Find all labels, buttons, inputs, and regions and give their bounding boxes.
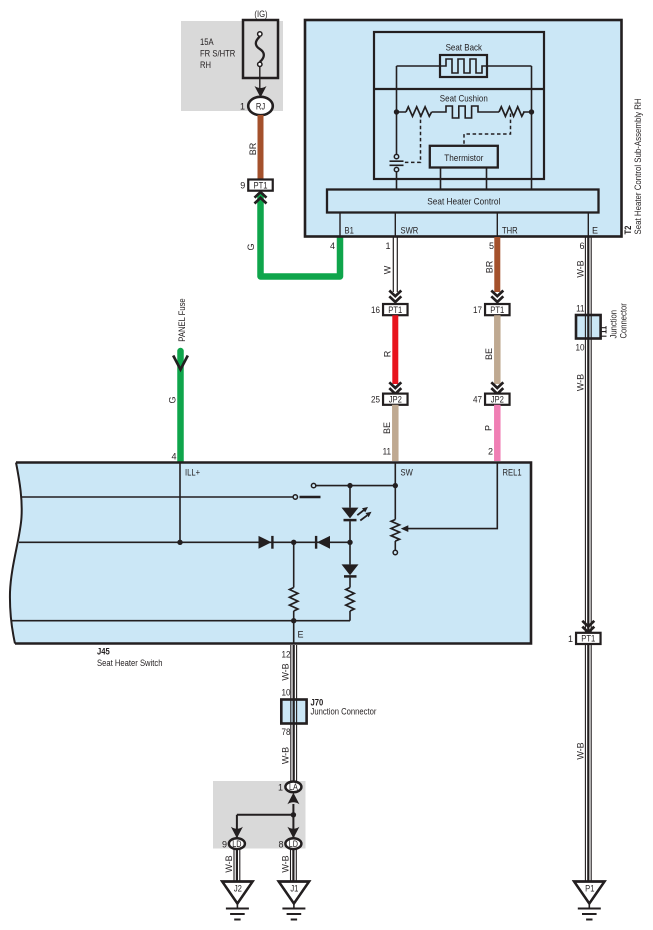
svg-text:4: 4 — [330, 241, 335, 251]
svg-text:Seat Heater Control Sub-Assemb: Seat Heater Control Sub-Assembly RH — [633, 98, 643, 234]
svg-text:PT1: PT1 — [490, 305, 504, 315]
svg-text:W-B: W-B — [576, 742, 586, 759]
svg-text:10: 10 — [576, 343, 585, 353]
svg-text:W-B: W-B — [576, 374, 586, 391]
svg-text:78: 78 — [282, 727, 291, 737]
svg-text:(IG): (IG) — [254, 9, 267, 19]
svg-text:6: 6 — [579, 241, 584, 251]
svg-text:BE: BE — [484, 348, 494, 360]
svg-text:15A: 15A — [200, 37, 214, 47]
svg-text:J1: J1 — [290, 884, 298, 894]
svg-text:16: 16 — [371, 305, 380, 315]
svg-text:Junction Connector: Junction Connector — [311, 707, 377, 717]
svg-text:JP2: JP2 — [491, 394, 504, 404]
svg-text:REL1: REL1 — [503, 468, 522, 478]
svg-text:1: 1 — [240, 102, 245, 112]
svg-text:Seat Back: Seat Back — [446, 42, 483, 52]
svg-text:RJ: RJ — [256, 102, 265, 112]
svg-text:ILL+: ILL+ — [185, 468, 200, 478]
svg-text:PT1: PT1 — [254, 180, 268, 190]
svg-text:B1: B1 — [345, 226, 354, 236]
svg-text:10: 10 — [282, 688, 291, 698]
svg-text:47: 47 — [473, 395, 482, 405]
svg-text:BR: BR — [485, 260, 495, 273]
svg-text:Thermistor: Thermistor — [444, 153, 483, 163]
svg-text:PANEL Fuse: PANEL Fuse — [177, 298, 187, 341]
svg-text:P1: P1 — [585, 884, 594, 894]
svg-text:2: 2 — [488, 447, 493, 457]
svg-text:W-B: W-B — [281, 663, 291, 680]
svg-text:W: W — [383, 265, 393, 274]
svg-text:Junction: Junction — [609, 310, 619, 339]
svg-text:LD: LD — [232, 839, 242, 849]
svg-text:P: P — [484, 425, 494, 431]
svg-text:G: G — [168, 396, 178, 403]
svg-text:25: 25 — [371, 395, 380, 405]
svg-text:LA: LA — [289, 782, 298, 792]
svg-text:LD: LD — [289, 839, 299, 849]
svg-text:Seat Heater Control: Seat Heater Control — [427, 197, 500, 207]
svg-text:R: R — [383, 350, 393, 357]
svg-text:SW: SW — [401, 468, 414, 478]
svg-text:Seat Cushion: Seat Cushion — [440, 93, 488, 103]
svg-text:W-B: W-B — [224, 855, 234, 872]
svg-text:9: 9 — [240, 181, 245, 191]
svg-text:W-B: W-B — [281, 855, 291, 872]
svg-text:17: 17 — [473, 305, 482, 315]
svg-text:FR S/HTR: FR S/HTR — [200, 49, 236, 59]
svg-text:JP2: JP2 — [389, 394, 402, 404]
svg-text:J45: J45 — [97, 647, 110, 657]
svg-text:Seat Heater Switch: Seat Heater Switch — [97, 658, 163, 668]
svg-text:G: G — [246, 243, 256, 250]
svg-text:5: 5 — [489, 241, 494, 251]
svg-text:9: 9 — [222, 840, 227, 850]
svg-text:8: 8 — [278, 840, 283, 850]
svg-text:1: 1 — [568, 634, 573, 644]
svg-text:1: 1 — [278, 783, 283, 793]
svg-text:J2: J2 — [234, 884, 242, 894]
svg-text:RH: RH — [200, 60, 211, 70]
svg-text:4: 4 — [171, 452, 176, 462]
svg-text:BR: BR — [248, 142, 258, 155]
svg-text:PT1: PT1 — [388, 305, 402, 315]
svg-text:11: 11 — [383, 447, 391, 457]
svg-text:W-B: W-B — [576, 260, 586, 277]
svg-text:E: E — [592, 226, 598, 236]
svg-text:W-B: W-B — [281, 747, 291, 764]
svg-text:E: E — [298, 630, 304, 640]
svg-text:11: 11 — [576, 304, 584, 314]
svg-text:T11: T11 — [599, 326, 609, 339]
svg-text:PT1: PT1 — [581, 634, 595, 644]
svg-text:Connector: Connector — [619, 303, 629, 338]
svg-text:SWR: SWR — [401, 226, 419, 236]
svg-text:12: 12 — [282, 650, 291, 660]
svg-text:THR: THR — [502, 226, 518, 236]
svg-text:1: 1 — [385, 241, 390, 251]
svg-text:BE: BE — [382, 422, 392, 434]
svg-text:T2: T2 — [623, 226, 633, 235]
